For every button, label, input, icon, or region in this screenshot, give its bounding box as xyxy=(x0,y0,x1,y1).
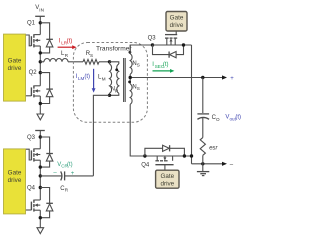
ground (primary, upper leg) xyxy=(37,114,44,120)
polarity dot N_P xyxy=(115,68,118,71)
terminal arrow output + xyxy=(222,75,227,79)
wire: V_IN terminal bar xyxy=(35,15,45,17)
svg-text:Transformer: Transformer xyxy=(96,45,132,52)
net V_out(t) label (blue) xyxy=(225,115,241,122)
svg-text:(t): (t) xyxy=(84,74,90,80)
node: Q4 source xyxy=(39,216,42,219)
wire: output - rail xyxy=(192,163,223,165)
winding N_S (top secondary) xyxy=(129,45,131,54)
node: midpoint to resonant tank xyxy=(39,60,42,63)
svg-text:drive: drive xyxy=(8,65,22,72)
voltage label V_CR(t) (green) xyxy=(57,162,72,169)
node: primary bottom xyxy=(108,94,111,97)
svg-text:(t): (t) xyxy=(235,115,241,121)
transformer dashed boundary xyxy=(73,43,147,123)
node: Q4 diode return xyxy=(183,154,186,157)
gate drive block (Q4 SR, tan) xyxy=(156,170,179,188)
wire: bottom secondary down to SR Q4 xyxy=(130,104,191,156)
wire: center tap to output + xyxy=(130,77,223,79)
wire: top secondary to SR Q3 xyxy=(130,45,152,54)
wire: Q4 source down xyxy=(39,210,41,228)
gate drive block (Q1/Q2, yellow) xyxy=(4,34,26,101)
svg-text:S: S xyxy=(137,86,140,91)
gate drive block (Q3 SR, tan) xyxy=(166,12,187,32)
node: midpoint to C_R xyxy=(39,174,42,177)
capacitor C_R (resonant) xyxy=(40,175,62,177)
node: primary top xyxy=(108,60,111,63)
svg-text:Gate: Gate xyxy=(170,15,184,22)
svg-text:esr: esr xyxy=(209,146,218,152)
svg-text:O: O xyxy=(216,117,220,122)
wire: SR common leg (Q3 right down to Q4 right) xyxy=(191,45,193,164)
svg-text:Q3: Q3 xyxy=(27,135,36,141)
svg-text:+: + xyxy=(71,171,75,177)
svg-text:Gate: Gate xyxy=(160,173,174,180)
svg-text:Q2: Q2 xyxy=(29,70,38,76)
node: Q4 drain xyxy=(39,186,42,189)
node: center tap xyxy=(129,76,132,79)
winding N_P (primary) xyxy=(110,62,119,64)
diode of Q4 (bridge) (body diode) xyxy=(40,188,53,218)
transistor Q3 (sync rectifier, horizontal) xyxy=(153,31,192,45)
transistor Q2 xyxy=(26,85,41,97)
current label I_SEC(t) (green) with arrow xyxy=(152,62,168,69)
svg-text:(t): (t) xyxy=(67,39,73,45)
node: Q1 source / diode return xyxy=(39,51,42,54)
node: Q3 SR left xyxy=(151,43,154,46)
inductor L_M (magnetizing) xyxy=(109,62,111,64)
diode of Q3 SR xyxy=(153,45,184,58)
svg-text:Gate: Gate xyxy=(8,58,22,65)
capacitor C_O (output) xyxy=(202,78,204,114)
svg-text:IN: IN xyxy=(39,8,44,13)
resistor R_S xyxy=(83,59,99,64)
wire + inductor L_R (resonant inductor) xyxy=(40,61,44,63)
svg-text:M: M xyxy=(102,76,106,81)
node: Q3 source / diode return xyxy=(39,165,42,168)
transistor Q3b xyxy=(26,148,41,161)
wire: Q2 source down xyxy=(39,96,41,114)
wire: V_IN down to Q1 drain node xyxy=(39,16,41,34)
svg-text:Q4: Q4 xyxy=(141,162,150,168)
transformer core xyxy=(123,58,125,102)
node: output - junction xyxy=(201,162,204,165)
svg-text:drive: drive xyxy=(8,177,22,184)
diode of Q3 (bridge) (body diode) xyxy=(40,137,53,167)
wire: Q3 source to Q4 drain (midpoint) xyxy=(39,160,41,200)
ground (output) xyxy=(202,164,204,172)
node: Q3 SR right xyxy=(182,43,185,46)
transistor Q4 (sync rectifier, horizontal) xyxy=(155,156,173,170)
wire: lower leg supply terminal bar xyxy=(35,130,45,132)
svg-text:Q1: Q1 xyxy=(27,21,36,27)
gate drive block (Q3/Q4 bridge, yellow) xyxy=(4,149,26,214)
node: Q2 source xyxy=(39,102,42,105)
resistor esr xyxy=(202,118,204,138)
node: Q3 drain junction xyxy=(39,135,42,138)
node: Q4 SR left xyxy=(143,154,146,157)
svg-text:(t): (t) xyxy=(163,62,169,68)
polarity dot N_S top xyxy=(129,51,132,54)
wire: primary bottom to C_R leg xyxy=(93,95,109,176)
svg-text:P: P xyxy=(115,88,118,93)
node: output + junction xyxy=(201,76,204,79)
terminal arrow output - xyxy=(222,162,227,166)
svg-text:S: S xyxy=(137,63,140,68)
svg-text:Q3: Q3 xyxy=(148,35,157,41)
svg-text:drive: drive xyxy=(170,22,184,29)
svg-text:+: + xyxy=(230,76,234,82)
node: Q4/SR common junction xyxy=(190,154,193,157)
winding N_S (bottom secondary) xyxy=(130,84,132,104)
diode of Q2 (body diode) xyxy=(40,73,53,104)
svg-text:S: S xyxy=(90,53,93,58)
current label I_LR(t) (red) with arrow xyxy=(59,39,72,46)
polarity dot N_S bottom xyxy=(128,81,131,84)
svg-text:(t): (t) xyxy=(67,162,73,168)
wire: Q1 source to Q2 drain (half-bridge midpoint) xyxy=(39,46,41,86)
transistor Q1 xyxy=(26,34,41,47)
node: Q2 drain xyxy=(39,71,42,74)
diode of Q1 (body diode) xyxy=(40,23,53,53)
svg-text:drive: drive xyxy=(160,181,174,188)
node: Q1 drain junction xyxy=(39,21,42,24)
svg-text:Gate: Gate xyxy=(8,169,22,176)
diode of Q4 SR xyxy=(145,145,185,156)
current label I_LM(t) (blue) with down arrow xyxy=(76,74,90,81)
transistor Q4b xyxy=(26,200,41,212)
ground (primary, lower leg) xyxy=(37,228,44,234)
wire R_S to primary node xyxy=(99,61,110,63)
wire: secondary center junction xyxy=(129,74,131,84)
svg-text:Q4: Q4 xyxy=(27,186,36,192)
